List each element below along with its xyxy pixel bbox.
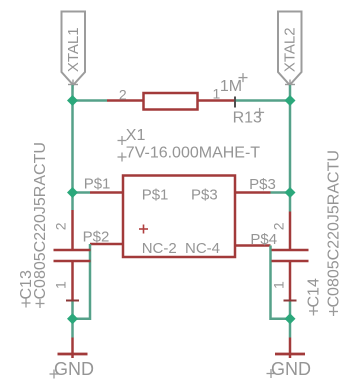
origin cross C14: [309, 307, 318, 316]
svg-text:XTAL2: XTAL2: [282, 27, 299, 72]
junction GND left: [67, 313, 78, 324]
pin end cross C14 pin1: [284, 300, 297, 302]
origin cross C13: [22, 299, 31, 308]
wire net P$3: [271, 191, 291, 194]
junction at XTAL2/P$3: [285, 187, 296, 198]
connector XTAL1: [62, 12, 86, 86]
svg-text:P$2: P$2: [83, 229, 110, 246]
connector XTAL2: [278, 12, 302, 86]
wire net XTAL2 vertical: [289, 85, 292, 212]
svg-text:GND: GND: [271, 359, 311, 379]
svg-text:X1: X1: [126, 127, 146, 144]
svg-text:2: 2: [53, 222, 69, 230]
capacitor C13: [54, 210, 91, 301]
origin cross value: [118, 153, 127, 162]
svg-text:1: 1: [271, 281, 287, 289]
wire net XTAL1 to resistor pin2: [73, 99, 108, 102]
svg-text:P$3: P$3: [249, 176, 276, 193]
svg-text:C0805C220J5RACTU: C0805C220J5RACTU: [32, 142, 49, 299]
junction at XTAL2/R13: [285, 95, 296, 106]
junction at XTAL1/R13: [67, 95, 78, 106]
svg-text:7V-16.000MAHE-T: 7V-16.000MAHE-T: [126, 145, 261, 162]
pin P$3: [235, 191, 271, 194]
junction GND right: [285, 313, 296, 324]
svg-text:GND: GND: [54, 359, 94, 379]
pin P$1: [90, 191, 123, 194]
wire net XTAL2 to resistor pin1: [236, 99, 290, 102]
pin end cross C13 pin1: [66, 300, 79, 302]
wire net XTAL1 vertical: [71, 85, 74, 210]
svg-text:NC-4: NC-4: [185, 240, 220, 257]
svg-text:C0805C220J5RACTU: C0805C220J5RACTU: [326, 150, 343, 307]
pin end tick R13 pin1: [234, 97, 236, 108]
wire net C13 bottom to junction: [71, 301, 74, 338]
wire net P$4 down: [271, 246, 291, 319]
svg-text:P$1: P$1: [142, 187, 169, 204]
ground left: [54, 338, 94, 380]
pin P$4: [235, 244, 271, 247]
wire net P$1: [73, 191, 91, 194]
origin cross X1 label: [118, 136, 127, 145]
svg-text:P$1: P$1: [84, 176, 111, 193]
svg-text:1: 1: [53, 281, 69, 289]
svg-text:2: 2: [119, 87, 127, 103]
pin cross XTAL2: [285, 80, 295, 90]
origin cross 1M: [239, 73, 248, 82]
svg-text:XTAL1: XTAL1: [65, 27, 82, 72]
origin cross X1 (red): [139, 225, 148, 234]
resistor R13: [107, 93, 235, 110]
ground right: [271, 338, 311, 380]
crystal X1 box: [123, 176, 235, 258]
wire net C14 bottom to junction: [289, 301, 292, 338]
origin cross C14 value: [329, 307, 338, 316]
pin P$2: [90, 243, 123, 246]
svg-text:C14: C14: [306, 278, 323, 307]
capacitor C14: [272, 212, 309, 301]
svg-text:P$3: P$3: [191, 187, 218, 204]
svg-text:2: 2: [271, 222, 287, 230]
svg-text:P$4: P$4: [250, 231, 277, 248]
svg-text:1M: 1M: [220, 78, 242, 95]
origin cross GND right: [267, 369, 276, 378]
origin cross GND left: [50, 370, 59, 379]
origin cross R13: [255, 108, 264, 117]
pin cross XTAL1: [68, 80, 78, 90]
svg-text:NC-2: NC-2: [142, 240, 177, 257]
origin cross C13 value: [36, 299, 45, 308]
junction at XTAL1/P$1: [67, 187, 78, 198]
wire net P$2 down: [73, 244, 91, 319]
